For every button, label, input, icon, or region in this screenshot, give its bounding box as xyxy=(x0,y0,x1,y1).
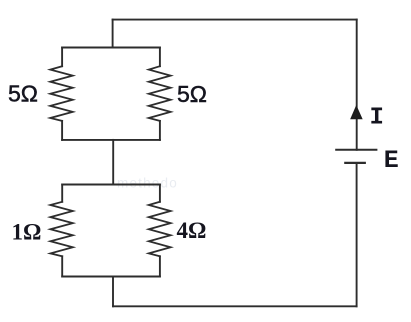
wire bottom horizontal xyxy=(113,305,357,307)
wire top box left lead upper xyxy=(61,48,63,67)
node A: top box top edge xyxy=(62,47,160,49)
battery E positive plate (long) xyxy=(336,149,376,151)
svg-text:E: E xyxy=(384,146,399,175)
wire bottom box left lead lower xyxy=(61,256,63,276)
wire top-left vertical drop xyxy=(112,20,114,48)
wire top horizontal xyxy=(113,19,357,21)
wire middle vertical between boxes xyxy=(112,140,114,185)
wire bottom box right lead upper xyxy=(159,185,161,202)
svg-text:5Ω: 5Ω xyxy=(8,80,38,106)
node B: top box bottom edge xyxy=(62,139,160,141)
svg-text:I: I xyxy=(370,104,384,131)
wire bottom-left vertical drop xyxy=(112,277,114,307)
resistor R1 5ohm (top-left) zigzag xyxy=(50,66,72,121)
svg-text:methodo: methodo xyxy=(117,176,178,191)
wire right vertical upper (above battery) xyxy=(356,20,358,150)
wire bottom box right lead lower xyxy=(159,256,161,276)
resistor R4 4ohm (bottom-right) zigzag xyxy=(149,202,171,256)
wire top box left lead lower xyxy=(61,121,63,140)
svg-text:1Ω: 1Ω xyxy=(12,219,42,244)
battery E negative plate (short) xyxy=(345,162,365,164)
node D: bottom box bottom edge xyxy=(62,276,160,278)
wire top box right lead lower xyxy=(159,121,161,140)
resistor R3 1ohm (bottom-left) zigzag xyxy=(50,202,72,256)
current arrow I (pointing up) xyxy=(351,106,362,119)
wire top box right lead upper xyxy=(159,48,161,67)
svg-text:5Ω: 5Ω xyxy=(177,81,207,107)
wire right vertical lower (below battery) xyxy=(356,163,358,306)
wire bottom box left lead upper xyxy=(61,185,63,202)
svg-text:4Ω: 4Ω xyxy=(177,218,207,243)
resistor R2 5ohm (top-right) zigzag xyxy=(149,66,171,121)
node C: bottom box top edge xyxy=(62,184,160,186)
